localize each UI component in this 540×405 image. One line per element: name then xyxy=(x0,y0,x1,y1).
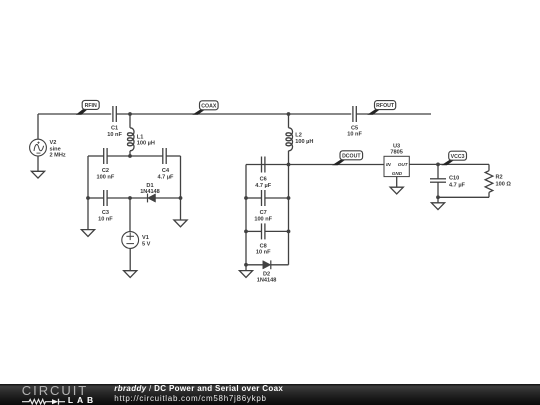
flag VCC3 xyxy=(441,151,466,165)
inductor L1 xyxy=(127,128,134,151)
wire DCOUT to U3 xyxy=(289,164,385,166)
node junction C8 left xyxy=(244,230,248,234)
node junction C1/L1 xyxy=(128,112,132,116)
wire L1 bottom stem xyxy=(129,151,131,156)
ground (left rail) xyxy=(81,230,94,237)
ground (C10) xyxy=(431,197,444,209)
credit line xyxy=(114,384,283,393)
voltage source V2 (sine) xyxy=(30,139,47,156)
node junction L2/mid rail xyxy=(287,163,291,167)
wire rung2 left xyxy=(88,197,104,199)
node junction right rail/rung2 xyxy=(179,196,183,200)
label C3 10 nF xyxy=(98,210,113,222)
resistor R2 xyxy=(485,171,493,193)
pin label GND xyxy=(392,171,403,176)
ground (V1) xyxy=(124,271,137,278)
flag RFIN xyxy=(76,100,99,114)
label V1 5 V xyxy=(142,235,151,248)
label U3 7805 xyxy=(390,143,402,155)
wire left rail (x=88) xyxy=(87,156,89,230)
label C10 4.7 uF xyxy=(449,176,466,189)
capacitor C4 xyxy=(163,148,166,164)
node junction left rail/rung2 xyxy=(86,196,90,200)
label L2 100 uH xyxy=(295,133,313,146)
ground (U3) xyxy=(390,187,403,194)
capacitor C2 xyxy=(104,148,107,164)
node junction L2/top rail xyxy=(287,112,291,116)
label C1 10 nF xyxy=(107,126,122,138)
node junction L1/top rung xyxy=(128,154,132,158)
wire V2 bottom stem xyxy=(37,156,39,171)
wire mid right rail xyxy=(288,165,290,265)
node junction C7 left xyxy=(244,196,248,200)
wire bottom output rail xyxy=(438,196,489,198)
wire top rail right segment xyxy=(356,113,431,115)
wire V1 bottom stem xyxy=(129,248,131,270)
wire mid rail (DCOUT rail) xyxy=(246,164,289,166)
capacitor C5 xyxy=(353,106,356,122)
node junction C10 bottom xyxy=(436,195,440,199)
wire L2 bottom stem xyxy=(288,151,290,165)
wire C10 bottom stem xyxy=(437,182,439,197)
label C7 100 nF xyxy=(254,210,272,222)
url line xyxy=(114,394,266,403)
capacitor C6 xyxy=(262,157,265,173)
capacitor C7 xyxy=(262,190,265,206)
wire V1 top stem xyxy=(129,198,131,232)
ground (middle ladder) xyxy=(239,265,252,278)
wire L2 top stem xyxy=(288,114,290,128)
op-amp U3 7805 body xyxy=(384,156,409,176)
label C8 10 nF xyxy=(256,243,271,255)
label C6 4.7 uF xyxy=(255,177,272,189)
node junction C7 right xyxy=(287,196,291,200)
capacitor C3 xyxy=(104,190,107,206)
label C2 100 nF xyxy=(97,168,115,180)
inductor L2 xyxy=(286,128,293,151)
wire C10 top stem xyxy=(437,164,439,178)
wire mid left rail xyxy=(245,165,247,265)
wire top rail left segment xyxy=(38,113,111,115)
footer bar background xyxy=(0,384,540,405)
pin label IN xyxy=(386,162,391,167)
CircuitLab logo word xyxy=(22,383,88,398)
voltage source V1 (5 V) xyxy=(122,232,139,249)
wire top rail middle segment xyxy=(116,113,351,115)
logo mini schematic: resistor + diode xyxy=(17,395,77,405)
label V2 sine 2 MHz xyxy=(50,140,66,158)
diode D1 1N4148 xyxy=(148,194,156,203)
capacitor C10 xyxy=(430,179,446,182)
label L1 100 uH xyxy=(137,135,155,147)
wire L1 top stem xyxy=(129,114,131,128)
flag RFOUT xyxy=(367,101,395,115)
wire rung D2 left xyxy=(246,264,263,266)
label C5 10 nF xyxy=(347,126,362,138)
wire top rung left xyxy=(88,155,104,157)
label D2 1N4148 xyxy=(257,272,277,284)
label C4 4.7 uF xyxy=(158,168,175,180)
capacitor C1 xyxy=(113,106,116,122)
wire U3 GND stem xyxy=(396,177,398,188)
label D1 1N4148 xyxy=(140,183,160,195)
wire top rung middle xyxy=(107,155,163,157)
wire top rung right xyxy=(166,155,180,157)
ground (right rail) xyxy=(174,220,187,227)
wire rung2 right xyxy=(156,197,181,199)
wire rung D2 right xyxy=(271,264,289,266)
node junction V1/rung2 xyxy=(128,196,132,200)
flag COAX xyxy=(192,101,218,115)
wire U3 OUT rail xyxy=(409,163,489,165)
wire V2 top stem xyxy=(37,114,39,139)
capacitor C8 xyxy=(262,223,265,239)
flag DCOUT xyxy=(332,151,363,166)
diode D2 1N4148 xyxy=(263,260,271,269)
wire R2 top stem xyxy=(488,164,490,170)
node junction C8 right xyxy=(287,230,291,234)
node junction ladder ground xyxy=(244,263,248,267)
label R2 100 Ohm xyxy=(496,175,512,188)
wire rung C8 xyxy=(246,230,289,232)
pin label OUT xyxy=(398,162,409,167)
wire rung C7 xyxy=(246,197,289,199)
wire R2 bottom stem xyxy=(488,192,490,197)
wire rung2 middle xyxy=(107,197,147,199)
node junction C10 top xyxy=(436,163,440,167)
wire right rail (x=180.5) xyxy=(180,156,182,220)
logo LAB text xyxy=(68,395,97,405)
ground (V2) xyxy=(31,171,44,178)
